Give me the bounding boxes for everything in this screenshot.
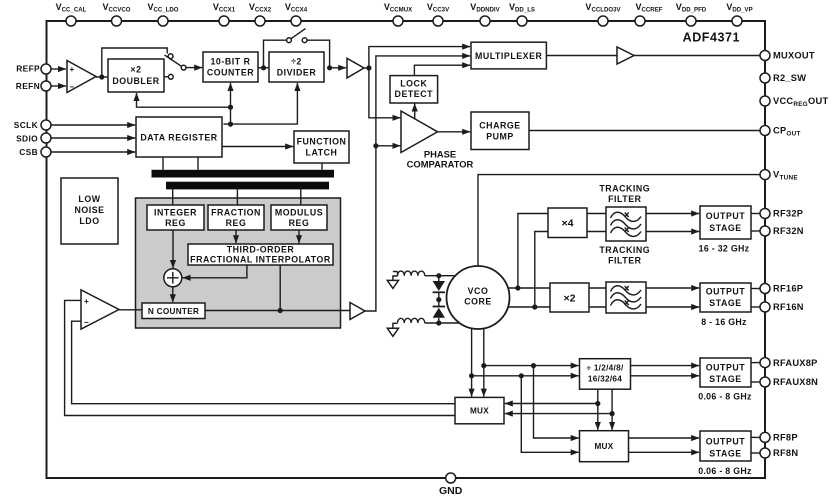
wire SDIO to data register (51, 137, 135, 139)
wire filter 2 to output stage 16 bottom (646, 306, 699, 308)
svg-text:10-BIT R: 10-BIT R (210, 57, 250, 67)
svg-text:INTEGER: INTEGER (154, 208, 197, 218)
svg-text:MULTIPLEXER: MULTIPLEXER (475, 51, 543, 61)
wire feedback loop minus (72, 321, 455, 404)
muxout buffer U3 (617, 47, 634, 64)
ground top left of VCO tank (393, 272, 398, 276)
pin VCC_LDO (147, 2, 178, 26)
svg-text:STAGE: STAGE (709, 374, 741, 384)
svg-text:LATCH: LATCH (306, 148, 338, 158)
wire modulus reg to interpolator (298, 230, 300, 243)
svg-text:STAGE: STAGE (709, 448, 741, 458)
wire output stage 16 to RF16N pin (751, 306, 760, 308)
wire aux divider down output 2 to MUX2 (611, 389, 613, 430)
pin RF8N (760, 448, 798, 458)
svg-text:R2_SW: R2_SW (773, 73, 806, 83)
svg-text:MODULUS: MODULUS (275, 208, 323, 218)
svg-text:0.06 - 8 GHz: 0.06 - 8 GHz (698, 466, 752, 476)
wire output stage 32 to RF32N pin (751, 230, 760, 232)
block CHARGE PUMP (471, 112, 529, 150)
wire filter 1 to output stage 32 top (646, 213, 699, 215)
tracking filter 1 (606, 207, 646, 241)
wire data register to bus bar drop 1 (162, 157, 164, 170)
node aux out 1 (595, 401, 600, 406)
node control 1 (228, 122, 233, 127)
pin RFAUX8P (760, 358, 818, 368)
wire control to doubler bottom (137, 93, 231, 107)
wire bus to modulus reg (300, 189, 302, 205)
svg-text:VCC_CAL: VCC_CAL (56, 2, 87, 14)
svg-text:VCCX1: VCCX1 (213, 2, 236, 14)
pin VDD_VP (726, 2, 752, 26)
multiplier block x4 (548, 208, 587, 238)
wire integer reg to adder (172, 230, 174, 268)
pin CSB (19, 147, 51, 157)
pin RF16P (760, 284, 803, 294)
pin GND (439, 473, 463, 497)
svg-text:16/32/64: 16/32/64 (588, 375, 622, 384)
svg-text:VDD_VP: VDD_VP (726, 2, 752, 14)
svg-text:VDDNDIV: VDDNDIV (470, 2, 500, 14)
wire SCLK to data register (51, 124, 135, 126)
wire interpolator to adder (183, 265, 247, 278)
wire R counter to divider (258, 67, 269, 69)
label TRACKING FILTER bottom (599, 245, 650, 266)
wire MUX2 to output stage 8 bottom (628, 451, 699, 453)
pin VTUNE (760, 170, 798, 182)
wire CSB to data register (51, 151, 135, 153)
wire output stage 16 to RF16P pin (751, 288, 760, 290)
svg-text:FRACTIONAL INTERPOLATOR: FRACTIONAL INTERPOLATOR (190, 255, 331, 265)
pin VCCREGOUT (760, 96, 828, 108)
wire output buffer to MUXOUT pin (634, 55, 760, 57)
wire VCO output A (508, 287, 550, 289)
bus bar 1 (152, 170, 335, 178)
wire drop1 to aux divider input 2 (472, 375, 579, 377)
node control 2 (228, 105, 233, 110)
wire MUX2 to output stage 8 top (628, 437, 699, 439)
node varactor mid (436, 297, 441, 302)
svg-text:VCCMUX: VCCMUX (384, 2, 413, 14)
tracking filter 2 (606, 282, 646, 313)
pin RF32P (760, 209, 803, 219)
node N counter output (278, 308, 283, 313)
block divide-by-2 DIVIDER (269, 52, 324, 82)
pin REFN (16, 81, 51, 91)
block OUTPUT STAGE 16-32 GHz (699, 206, 751, 254)
wire aux divider to output stage aux top (630, 365, 699, 367)
varactor D2 (438, 300, 440, 307)
svg-text:8 - 16 GHz: 8 - 16 GHz (701, 317, 747, 327)
node divider output (327, 65, 332, 70)
wire feedback loop plus (65, 300, 455, 415)
svg-text:×2: ×2 (564, 293, 576, 305)
wire x2 to tracking filter 2 bottom (589, 306, 606, 308)
svg-text:RFAUX8P: RFAUX8P (773, 358, 818, 368)
wire charge pump to CPOUT pin (529, 130, 760, 132)
adder sigma node (164, 269, 182, 287)
wire phase comparator to lock detect (414, 104, 416, 120)
VCO CORE circle (447, 266, 510, 329)
svg-text:TRACKING: TRACKING (599, 245, 650, 255)
pin REFP (16, 64, 51, 75)
inductor L2 (398, 318, 425, 323)
wire control riser to R counter bottom (230, 83, 232, 124)
doubler block x2 DOUBLER (108, 59, 164, 92)
wire node A to phase comparator plus input (369, 68, 401, 118)
svg-text:PUMP: PUMP (486, 132, 514, 142)
svg-text:16 - 32 GHz: 16 - 32 GHz (699, 244, 750, 254)
feedback buffer U5 (81, 290, 119, 329)
node varactor top (436, 273, 441, 278)
svg-text:DETECT: DETECT (395, 89, 434, 99)
svg-text:VCCLDO3V: VCCLDO3V (585, 2, 621, 14)
wire x2 to tracking filter 2 top (589, 287, 606, 289)
ground stem bottom (393, 323, 398, 328)
svg-text:VDD_PFD: VDD_PFD (676, 2, 707, 14)
svg-text:STAGE: STAGE (709, 223, 741, 233)
wire data register to bus bar drop 2 (197, 157, 199, 170)
pin VCC3V (427, 2, 450, 26)
wire adder to N counter (172, 287, 174, 302)
svg-text:0.06 - 8 GHz: 0.06 - 8 GHz (698, 392, 752, 402)
inductor L1 (398, 271, 425, 276)
svg-text:REFP: REFP (16, 64, 40, 74)
svg-text:COUNTER: COUNTER (207, 68, 254, 78)
N counter output buffer U6 (350, 303, 365, 320)
wire doubler output stub (164, 76, 168, 78)
pin MUXOUT (760, 51, 815, 61)
wire phase comparator to charge pump (438, 131, 471, 133)
pin VCCX4 (285, 2, 308, 26)
node A reference (366, 65, 371, 70)
wire divider output to reference buffer (332, 67, 346, 69)
svg-text:VCCX2: VCCX2 (249, 2, 272, 14)
svg-text:FILTER: FILTER (608, 256, 642, 266)
svg-text:RF8P: RF8P (773, 433, 798, 443)
bus bar 2 (166, 182, 329, 190)
wire output stage aux to RFAUX8P pin (751, 362, 760, 364)
svg-text:×2: ×2 (130, 65, 141, 75)
pin VDD_PFD (676, 2, 707, 26)
block MULTIPLEXER (471, 42, 546, 69)
wire drop2 to aux divider input 1 (484, 365, 579, 367)
svg-text:RF16P: RF16P (773, 284, 803, 294)
pin VDD_LS (509, 2, 535, 26)
wire fraction reg to interpolator (235, 230, 237, 243)
switch S2 right contact (302, 38, 307, 43)
wire feedback buffer output to N counter (119, 309, 142, 311)
pin VCC_CAL (56, 2, 87, 26)
node VCO output B (532, 304, 537, 309)
wire filter 2 to output stage 16 top (646, 287, 699, 289)
wire output stage 8 to RF8P pin (751, 436, 760, 438)
switch S2 left contact (287, 38, 292, 43)
svg-text:×4: ×4 (562, 218, 574, 230)
wire REFP to input buffer (51, 68, 66, 70)
node VCO output A (515, 285, 520, 290)
block FRACTION REG (208, 205, 264, 230)
block N COUNTER (142, 303, 205, 319)
pin VCCREF (635, 2, 663, 26)
node doubler input (99, 74, 104, 79)
block THIRD-ORDER FRACTIONAL INTERPOLATOR (188, 244, 333, 265)
wire VCO bottom drop 2 to MUX1 (483, 326, 485, 397)
phase comparator U4 (401, 111, 474, 169)
wire filter 1 to output stage 32 bottom (646, 231, 699, 233)
svg-text:N COUNTER: N COUNTER (148, 307, 199, 316)
svg-text:TRACKING: TRACKING (599, 184, 650, 194)
svg-text:ADF4371: ADF4371 (683, 31, 740, 45)
svg-text:VCC_LDO: VCC_LDO (147, 2, 178, 14)
node drop 2 (481, 363, 486, 368)
pin VDDNDIV (470, 2, 500, 26)
svg-text:÷ 1/2/4/8/: ÷ 1/2/4/8/ (586, 364, 624, 373)
svg-text:LOCK: LOCK (400, 79, 427, 89)
wire reference buffer to node A (364, 67, 369, 69)
svg-text:CHARGE: CHARGE (479, 121, 520, 131)
block MODULUS REG (271, 205, 327, 230)
svg-text:−: − (84, 318, 89, 327)
node varactor bottom (436, 320, 441, 325)
label TRACKING FILTER top (599, 184, 650, 205)
wire N counter output to buffer (205, 310, 350, 312)
pin RF16N (760, 302, 804, 312)
svg-text:VCO: VCO (468, 286, 489, 296)
svg-text:REG: REG (289, 218, 310, 228)
pin VCCMUX (384, 2, 413, 26)
block DATA REGISTER (136, 117, 222, 157)
switch S1 lower contact (168, 74, 173, 79)
wire output stage 32 to RF32P pin (751, 213, 760, 215)
svg-text:÷2: ÷2 (291, 57, 302, 67)
block LOW NOISE LDO (61, 178, 118, 244)
svg-text:DIVIDER: DIVIDER (277, 68, 317, 78)
svg-text:MUX: MUX (594, 442, 613, 451)
pin CPOUT (760, 126, 801, 138)
svg-text:SCLK: SCLK (14, 120, 38, 130)
ground symbol top (387, 280, 398, 288)
block LOCK DETECT (390, 76, 438, 103)
svg-text:CORE: CORE (464, 297, 492, 307)
pin VCCLDO3V (585, 2, 621, 26)
block OUTPUT STAGE 8 (698, 431, 752, 476)
chip boundary ADF4371 (47, 21, 766, 478)
svg-text:OUTPUT: OUTPUT (706, 211, 746, 221)
node aux out 2 (610, 411, 615, 416)
wire bus to fraction reg (236, 189, 238, 205)
svg-text:SDIO: SDIO (16, 134, 38, 144)
svg-text:MUX: MUX (470, 407, 489, 416)
wire buffer output to doubler, node (96, 76, 108, 78)
wire function latch to bus bar (321, 163, 323, 170)
svg-text:−: − (70, 83, 75, 92)
svg-text:VDD_LS: VDD_LS (509, 2, 535, 14)
pin VCCVCO (102, 2, 130, 26)
block MUX1 (455, 397, 504, 423)
wire divider bypass (264, 40, 287, 68)
wire L2 to varactor node (425, 322, 460, 324)
svg-text:RFAUX8N: RFAUX8N (773, 377, 818, 387)
block FUNCTION LATCH (294, 131, 349, 163)
block INTEGER REG (147, 205, 204, 230)
block aux divider 1/2/4/8/16/32/64 (580, 359, 631, 390)
svg-text:LOW: LOW (78, 194, 100, 204)
wire riser to x4 input 2 (535, 232, 548, 308)
svg-text:+: + (84, 297, 89, 306)
wire node A to multiplexer input 1 (369, 47, 470, 68)
svg-text:DOUBLER: DOUBLER (112, 76, 159, 86)
svg-text:VCCVCO: VCCVCO (102, 2, 130, 14)
node feedback to comparator (373, 143, 378, 148)
svg-text:OUTPUT: OUTPUT (706, 287, 746, 297)
wire aux out 1 to MUX1 right (505, 403, 598, 405)
svg-text:NOISE: NOISE (74, 205, 104, 215)
wire aux divider down output 1 to MUX2 (597, 389, 599, 430)
svg-text:VCCREF: VCCREF (635, 2, 662, 14)
svg-text:COMPARATOR: COMPARATOR (407, 158, 474, 169)
block OUTPUT STAGE 8-16 GHz (700, 283, 751, 327)
wire L1 to varactor node (425, 275, 455, 277)
node drop 1 (469, 373, 474, 378)
svg-text:LDO: LDO (79, 216, 99, 226)
pin R2_SW (760, 73, 806, 83)
switch S2 lever (291, 29, 306, 39)
svg-text:REFN: REFN (16, 81, 40, 91)
wire interpolator clock tap (279, 265, 281, 311)
ground symbol bottom (387, 328, 398, 336)
svg-text:GND: GND (439, 485, 463, 497)
switch S1 lever (165, 55, 182, 66)
wire data register control to divider bottom (224, 83, 298, 124)
svg-text:MUXOUT: MUXOUT (773, 51, 815, 61)
wire VCO output B (508, 306, 550, 308)
svg-text:CSB: CSB (19, 147, 38, 157)
wire riser to x4 input 1 (518, 214, 548, 289)
wire doubler bypass (102, 48, 167, 77)
sigma delta modulator region (136, 198, 341, 328)
svg-text:+: + (70, 65, 75, 74)
pin RF8P (760, 432, 798, 442)
wire riser to MUX2 input 2 (521, 376, 578, 453)
pin RFAUX8N (760, 377, 818, 387)
wire multiplexer to output buffer (546, 55, 617, 57)
wire bus to integer reg (172, 189, 174, 205)
svg-text:RF32P: RF32P (773, 209, 803, 219)
svg-text:REG: REG (165, 218, 186, 228)
input buffer U1 REF (67, 61, 96, 93)
svg-text:RF32N: RF32N (773, 226, 804, 236)
svg-text:THIRD-ORDER: THIRD-ORDER (227, 245, 295, 255)
varactor D1 (438, 276, 440, 281)
switch S1 pole contact (181, 65, 186, 70)
wire x4 to tracking filter 1 bottom (587, 231, 606, 233)
block OUTPUT STAGE aux (698, 358, 752, 402)
wire output stage aux to RFAUX8N pin (751, 381, 760, 383)
wire aux out 2 to MUX1 right (505, 413, 612, 415)
wire data register to function latch (222, 146, 293, 148)
svg-text:DATA REGISTER: DATA REGISTER (140, 133, 217, 143)
pin RF32N (760, 226, 804, 236)
svg-text:RF8N: RF8N (773, 448, 798, 458)
svg-text:FRACTION: FRACTION (211, 208, 261, 218)
wire node to phase comparator minus input (376, 145, 401, 147)
block MUX2 (580, 431, 629, 462)
node divider bypass left (261, 65, 266, 70)
svg-text:STAGE: STAGE (709, 298, 741, 308)
svg-text:VCC3V: VCC3V (427, 2, 450, 14)
wire VTUNE pin to VCO core (478, 175, 760, 266)
svg-text:OUTPUT: OUTPUT (706, 363, 746, 373)
wire switch S2 to divider output node (307, 40, 330, 68)
pin SCLK (14, 120, 51, 130)
wire N counter buffer riser to multiplexer input 2 (365, 56, 470, 311)
wire riser to MUX2 input 1 (534, 366, 579, 438)
wire REFN to input buffer (51, 85, 66, 87)
svg-text:VCCX4: VCCX4 (285, 2, 308, 14)
node aux riser 2 (519, 373, 524, 378)
ground stem top (393, 276, 398, 280)
svg-text:VTUNE: VTUNE (773, 170, 798, 182)
switch S1 top contact (168, 54, 173, 59)
svg-text:REG: REG (226, 218, 247, 228)
wire VCO bottom drop 1 to MUX1 (471, 328, 473, 397)
pin VCCX1 (213, 2, 236, 26)
svg-text:FUNCTION: FUNCTION (297, 137, 347, 147)
pin VCCX2 (249, 2, 272, 26)
svg-text:FILTER: FILTER (608, 194, 642, 204)
svg-text:CPOUT: CPOUT (773, 126, 801, 138)
svg-text:VCCREGOUT: VCCREGOUT (773, 96, 828, 108)
svg-text:OUTPUT: OUTPUT (706, 436, 746, 446)
pin SDIO (16, 133, 51, 144)
wire output stage 8 to RF8N pin (751, 452, 760, 454)
reference buffer U2 (347, 58, 364, 78)
node aux riser 1 (531, 363, 536, 368)
wire lock detect to multiplexer input 3 (414, 65, 470, 75)
wire aux divider to output stage aux bottom (630, 375, 699, 377)
block 10-BIT R COUNTER (203, 52, 258, 82)
wire switch S1 to R counter (186, 67, 202, 69)
svg-text:RF16N: RF16N (773, 302, 804, 312)
wire x4 to tracking filter 1 top (587, 213, 606, 215)
multiplier block x2 (550, 283, 589, 312)
